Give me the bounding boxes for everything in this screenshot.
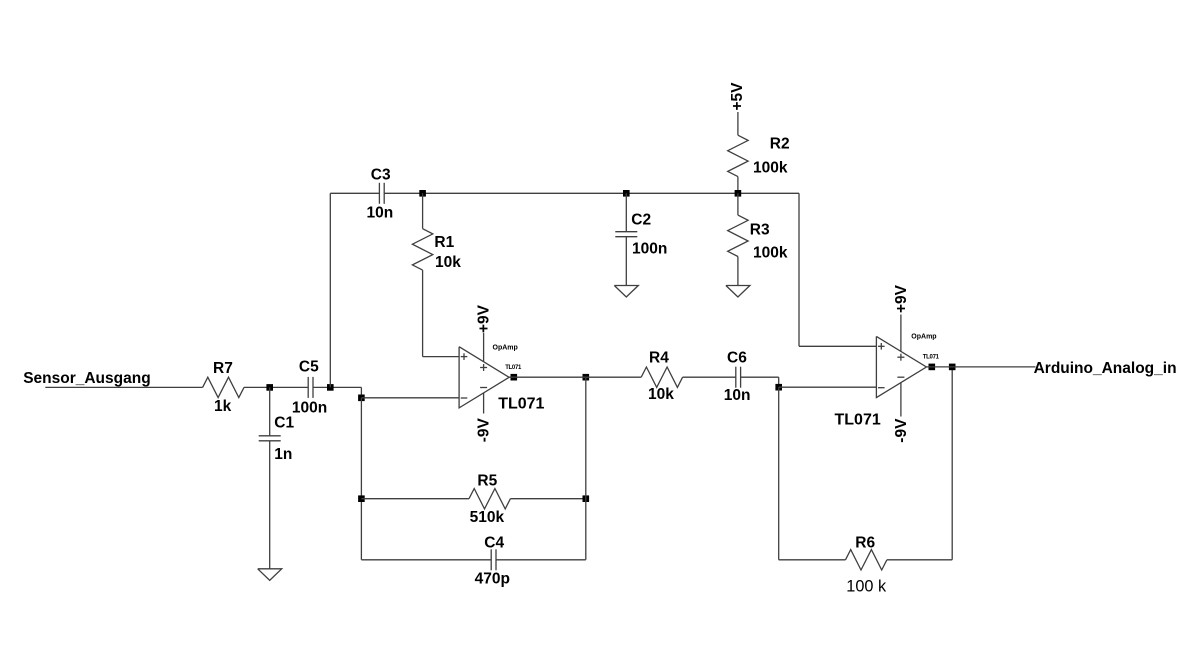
- svg-text:R1: R1: [434, 234, 454, 251]
- svg-text:R7: R7: [213, 360, 233, 377]
- svg-text:10k: 10k: [648, 386, 674, 403]
- svg-text:R6: R6: [855, 534, 875, 551]
- svg-text:510k: 510k: [470, 509, 505, 526]
- svg-text:C2: C2: [631, 212, 651, 229]
- svg-text:100k: 100k: [753, 160, 788, 177]
- svg-text:100k: 100k: [753, 245, 788, 262]
- svg-text:10k: 10k: [435, 254, 461, 271]
- svg-text:R4: R4: [649, 350, 669, 367]
- svg-text:R5: R5: [477, 472, 497, 489]
- svg-text:C6: C6: [727, 350, 747, 367]
- svg-text:C3: C3: [371, 167, 391, 184]
- svg-text:Sensor_Ausgang: Sensor_Ausgang: [23, 370, 150, 387]
- svg-text:C1: C1: [274, 415, 294, 432]
- svg-text:100n: 100n: [292, 399, 327, 416]
- svg-text:OpAmp: OpAmp: [493, 345, 518, 352]
- svg-text:+9V: +9V: [893, 284, 910, 313]
- svg-text:TL071: TL071: [923, 355, 940, 361]
- svg-text:1k: 1k: [214, 398, 232, 415]
- svg-text:OpAmp: OpAmp: [911, 334, 936, 341]
- svg-text:TL071: TL071: [835, 412, 881, 429]
- svg-text:TL071: TL071: [505, 365, 522, 371]
- svg-text:TL071: TL071: [498, 396, 544, 413]
- svg-text:100n: 100n: [632, 241, 667, 258]
- svg-text:R2: R2: [770, 136, 790, 153]
- svg-text:+9V: +9V: [476, 304, 493, 333]
- svg-text:470p: 470p: [475, 570, 510, 587]
- svg-text:100 k: 100 k: [846, 577, 887, 595]
- svg-text:1n: 1n: [274, 446, 292, 463]
- svg-text:+5V: +5V: [729, 82, 746, 111]
- svg-text:C4: C4: [484, 535, 504, 552]
- svg-text:C5: C5: [299, 358, 319, 375]
- svg-text:Arduino_Analog_in: Arduino_Analog_in: [1034, 360, 1177, 377]
- svg-text:10n: 10n: [367, 205, 394, 222]
- svg-text:-9V: -9V: [893, 418, 910, 443]
- svg-text:10n: 10n: [724, 387, 751, 404]
- svg-text:R3: R3: [750, 222, 770, 239]
- svg-text:-9V: -9V: [476, 418, 493, 443]
